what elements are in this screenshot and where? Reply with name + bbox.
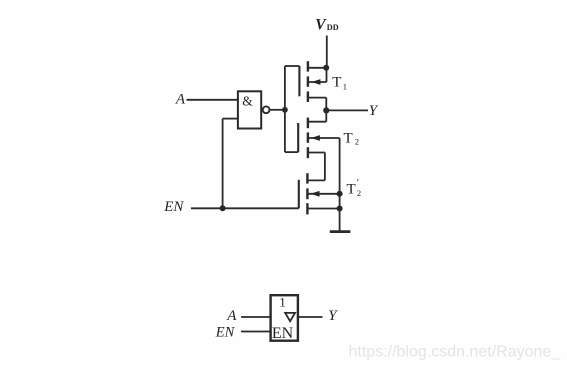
svg-text:EN: EN xyxy=(272,325,294,342)
svg-text:T: T xyxy=(347,182,356,198)
node VDD junction dot xyxy=(323,65,329,71)
node Y output dot xyxy=(323,107,329,113)
svg-text:′: ′ xyxy=(357,178,359,189)
svg-text:Y: Y xyxy=(369,103,379,119)
wire rail to T2 gate xyxy=(285,151,298,153)
svg-text:T: T xyxy=(344,130,353,146)
wire Y node to T2 drain xyxy=(325,110,327,121)
tri-state triangle marker xyxy=(285,313,295,321)
wire EN to symbol xyxy=(241,331,271,333)
node EN junction dot xyxy=(220,205,226,211)
svg-text:1: 1 xyxy=(279,295,286,310)
label VDD xyxy=(315,17,339,34)
wire rail to T1 gate xyxy=(285,65,300,67)
svg-text:EN: EN xyxy=(215,325,236,341)
wire T2 source to T2p drain xyxy=(309,153,325,181)
nand output bubble xyxy=(263,106,270,113)
wire output node to Y terminal xyxy=(326,109,368,111)
node T2p substrate junction dot xyxy=(337,191,343,197)
svg-text:A: A xyxy=(175,91,186,107)
svg-text:2: 2 xyxy=(357,188,361,198)
tri-state buffer symbol box xyxy=(271,295,298,341)
wire input A to NAND xyxy=(187,99,238,101)
svg-text:EN: EN xyxy=(163,199,184,215)
svg-text:https://blog.csdn.net/Rayone_: https://blog.csdn.net/Rayone_ xyxy=(349,344,562,361)
svg-text:1: 1 xyxy=(343,81,347,91)
label T2 prime xyxy=(347,178,362,198)
label T2 xyxy=(344,130,360,146)
wire NAND second input xyxy=(223,119,238,209)
label T1 xyxy=(332,74,347,91)
svg-text:&: & xyxy=(242,94,253,109)
wire input EN xyxy=(191,207,299,209)
wire VDD supply to T1 drain xyxy=(326,36,328,68)
wire T1 source to output node xyxy=(325,98,327,111)
wire gate rail vertical xyxy=(284,66,286,152)
svg-text:A: A xyxy=(226,308,237,324)
transistor T2p xyxy=(299,173,340,214)
svg-text:V: V xyxy=(315,17,327,34)
svg-text:2: 2 xyxy=(355,137,359,147)
wire symbol to Y xyxy=(298,316,323,318)
svg-text:Y: Y xyxy=(328,308,338,324)
svg-text:T: T xyxy=(332,74,341,90)
node T2p source junction dot xyxy=(337,206,343,212)
node gate rail dot xyxy=(282,107,288,113)
svg-text:DD: DD xyxy=(327,23,339,32)
transistor T2 xyxy=(298,118,339,159)
wire bubble to gate rail xyxy=(270,109,285,111)
ground xyxy=(330,230,351,233)
transistor T1 xyxy=(299,61,326,102)
nand-gate U1 xyxy=(238,91,261,128)
wire to ground xyxy=(339,209,341,232)
wire A to symbol xyxy=(241,316,271,318)
wire T2 substrate down to ground rail xyxy=(339,138,341,209)
